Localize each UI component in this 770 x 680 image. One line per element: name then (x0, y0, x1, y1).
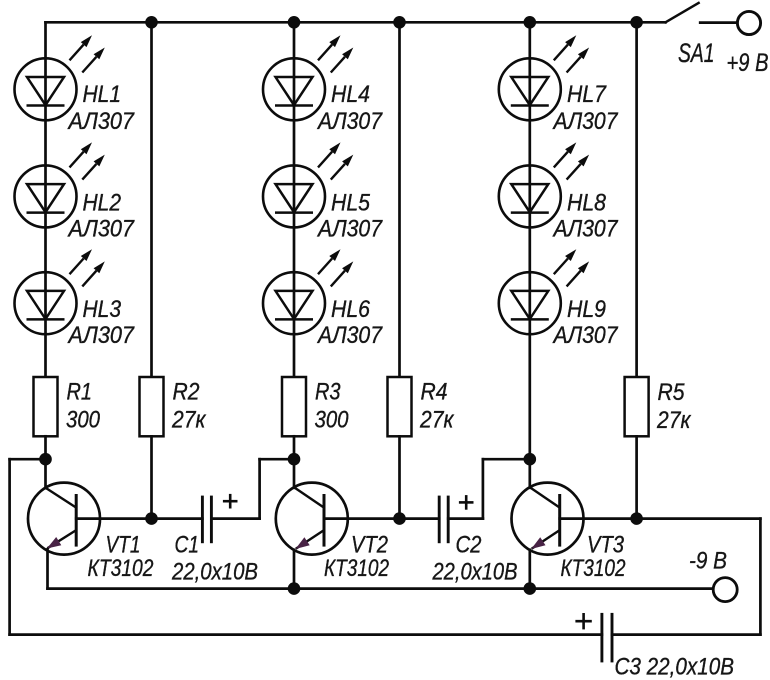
LED HL1 (15, 35, 105, 120)
svg-text:R5: R5 (658, 379, 686, 406)
svg-text:HL7: HL7 (567, 81, 607, 108)
LED HL8 (499, 142, 589, 227)
wire: C3 right plate to right edge (612, 633, 760, 636)
svg-text:АЛ307: АЛ307 (316, 215, 383, 242)
svg-text:R4: R4 (421, 379, 448, 406)
LED HL9 (499, 249, 589, 334)
svg-text:HL2: HL2 (83, 189, 122, 216)
transistor VT1 (28, 483, 100, 555)
wire: R1 bottom to VT1 collector (44, 436, 47, 488)
capacitor C2 (439, 496, 448, 544)
wire: column C from rail through HL4-HL6 to R3 (293, 22, 296, 377)
svg-text:C2: C2 (456, 532, 482, 559)
terminal -9 В (713, 578, 737, 602)
transistor VT3 (512, 483, 584, 555)
wire: switch to +9V terminal (700, 21, 737, 24)
svg-text:22,0x10В: 22,0x10В (432, 559, 518, 586)
junction: rail at HL7 column (524, 16, 537, 29)
wire: VT1 emitter drop (46, 549, 49, 588)
svg-text:КТ3102: КТ3102 (324, 555, 389, 582)
wire: VT2 base to C2 (324, 517, 439, 520)
wire: R4 bottom to VT2 base node (398, 436, 401, 518)
svg-text:HL1: HL1 (83, 81, 122, 108)
resistor R1 (34, 377, 58, 436)
junction: VT3 collector node (524, 453, 537, 466)
svg-text:КТ3102: КТ3102 (561, 555, 626, 582)
svg-text:C1: C1 (175, 532, 200, 559)
wire: +9V top rail (46, 21, 666, 24)
svg-text:R2: R2 (173, 379, 200, 406)
svg-text:HL4: HL4 (331, 81, 370, 108)
resistor R5 (625, 377, 649, 436)
wire: bottom feedback to C3 (10, 633, 602, 636)
wire: into VT2 collector node (260, 458, 294, 461)
transistor VT2 (276, 483, 348, 555)
polarity + of C1 (223, 494, 238, 509)
svg-text:HL9: HL9 (567, 296, 606, 323)
LED HL7 (499, 35, 589, 120)
svg-text:22,0x10В: 22,0x10В (171, 559, 258, 586)
wire: collector node to left feedback (10, 458, 46, 461)
svg-text:АЛ307: АЛ307 (316, 322, 383, 349)
polarity + of C2 (459, 495, 474, 510)
svg-text:HL6: HL6 (331, 296, 371, 323)
svg-text:27к: 27к (171, 407, 207, 434)
svg-text:SA1: SA1 (678, 38, 715, 68)
LED HL2 (15, 142, 105, 227)
wire: left feedback vertical (8, 459, 11, 634)
wire: column A from rail through HL1-HL3 to R1 (44, 22, 47, 377)
wire: VT3 base to right edge (560, 517, 761, 520)
svg-text:АЛ307: АЛ307 (67, 215, 136, 242)
svg-text:+9 В: +9 В (727, 49, 769, 77)
junction: VT1 base node (145, 512, 158, 525)
svg-text:АЛ307: АЛ307 (67, 322, 136, 349)
resistor R3 (282, 377, 306, 436)
LED HL4 (263, 35, 353, 120)
wire: corner up to VT3 collector row (482, 459, 485, 518)
LED HL3 (15, 249, 105, 334)
svg-text:АЛ307: АЛ307 (316, 108, 383, 135)
switch SA1 moving arm (666, 3, 699, 22)
junction: VT2 base node (393, 512, 406, 525)
svg-text:АЛ307: АЛ307 (552, 108, 619, 135)
svg-text:HL8: HL8 (567, 189, 607, 216)
svg-text:R1: R1 (67, 379, 93, 406)
LED HL6 (263, 249, 353, 334)
svg-text:АЛ307: АЛ307 (67, 108, 136, 135)
svg-text:27к: 27к (656, 407, 692, 434)
svg-text:-9 В: -9 В (689, 548, 727, 575)
wire: VT3 emitter drop (528, 550, 531, 589)
junction: rail at R4 (393, 16, 406, 29)
wire: column D rail to R4 (398, 22, 401, 377)
junction: VT2 emitter on bus (288, 582, 301, 595)
wire: C1 right plate to corner (211, 517, 259, 520)
svg-text:R3: R3 (315, 379, 341, 406)
svg-text:КТ3102: КТ3102 (88, 555, 154, 582)
polarity + of C3 (575, 613, 591, 629)
junction: rail at HL4 column (288, 16, 301, 29)
wire: C2 right plate to corner (448, 517, 483, 520)
junction: rail at R5 (630, 16, 643, 29)
svg-text:HL5: HL5 (331, 189, 371, 216)
svg-text:АЛ307: АЛ307 (552, 322, 619, 349)
capacitor C3 (602, 613, 612, 663)
wire: R3 bottom to VT2 collector (293, 436, 296, 488)
junction: VT2 collector node (288, 453, 301, 466)
wire: right edge drop to C3 (759, 519, 762, 635)
wire: R5 bottom to VT3 base node (635, 436, 638, 518)
wire: column E from rail through HL7-HL9 to VT3 (528, 22, 531, 488)
wire: VT1 base to C1 (76, 517, 202, 520)
svg-text:300: 300 (66, 407, 101, 434)
wire: column B rail to R2 (150, 22, 153, 377)
terminal +9 В (737, 11, 760, 34)
svg-text:300: 300 (315, 407, 350, 434)
junction: VT3 base node (630, 512, 643, 525)
wire: column F rail to R5 (635, 22, 638, 377)
wire: R2 bottom to VT1 base node (150, 436, 153, 518)
wire: corner up to VT2 collector row (258, 459, 261, 518)
wire: VT2 emitter drop (293, 550, 296, 589)
svg-text:HL3: HL3 (83, 296, 122, 323)
wire: emitter bus to -9V (48, 587, 714, 590)
junction: VT3 emitter on bus (524, 582, 537, 595)
svg-text:C3 22,0x10В: C3 22,0x10В (615, 654, 735, 680)
capacitor C1 (202, 496, 211, 544)
resistor R2 (140, 377, 164, 436)
junction: VT1 collector node (39, 453, 52, 466)
junction: rail at R2 (145, 16, 158, 29)
LED HL5 (263, 142, 353, 227)
resistor R4 (388, 377, 412, 436)
wire: into VT3 collector node (483, 458, 530, 461)
svg-text:27к: 27к (419, 407, 455, 434)
svg-text:АЛ307: АЛ307 (552, 215, 619, 242)
